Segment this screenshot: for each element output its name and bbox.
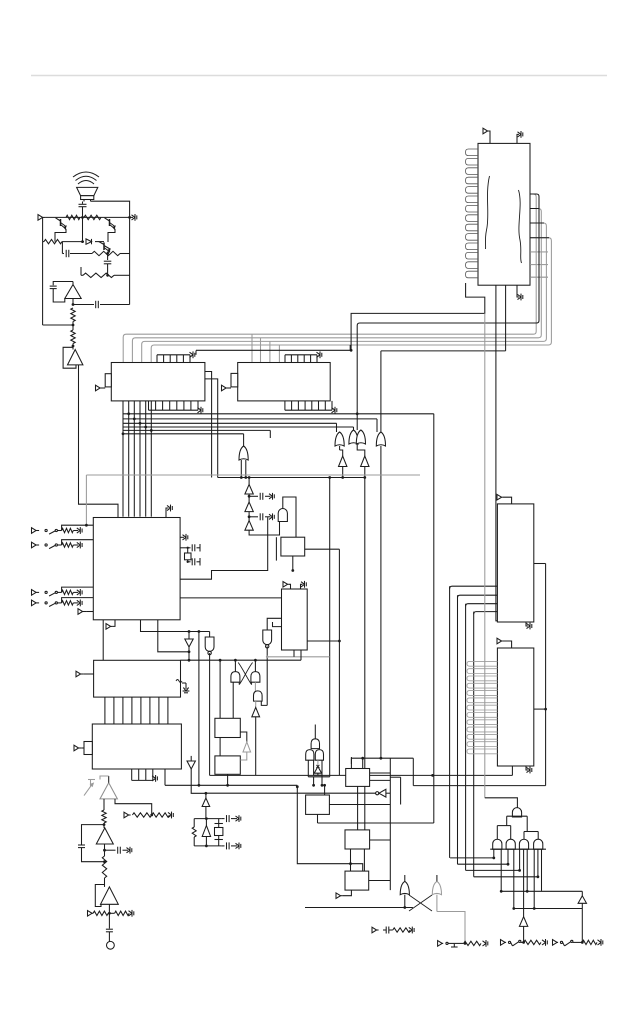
microphone MIC1 — [107, 932, 115, 949]
row R864 — [458, 863, 510, 866]
wire U1-U2 link 1 — [205, 372, 212, 478]
wire V276 — [275, 537, 277, 560]
capacitor C4 — [50, 286, 57, 289]
capacitor C7 — [249, 513, 274, 520]
wire speaker to cap C1 — [83, 202, 92, 204]
bus wire U1-U3 3 — [133, 401, 135, 517]
IC U6 body — [281, 537, 305, 556]
gray bus wire 2 — [132, 209, 541, 363]
capacitor C9 — [188, 558, 200, 566]
op-amp A5 feedback loop — [95, 885, 104, 907]
wire G5 out to U6 — [283, 497, 296, 537]
rect U11 — [306, 795, 330, 814]
AND gate G10 tall — [311, 725, 319, 749]
U2 input arrow — [222, 385, 232, 391]
wire V413 — [412, 758, 414, 785]
capacitor C6 — [249, 493, 274, 500]
wire T3-T4 — [248, 494, 251, 502]
input row B1 — [372, 927, 414, 934]
U1 left notch — [105, 374, 111, 387]
wire to row3 — [62, 242, 64, 254]
row R870 — [466, 869, 521, 872]
wire U12 right — [370, 839, 391, 841]
resistor R9 vertical — [102, 856, 106, 878]
osc box Y2 — [192, 817, 221, 847]
speaker SP1 — [77, 187, 98, 201]
wire V545 — [545, 564, 547, 786]
input row mic2 — [88, 910, 134, 917]
right rail down — [129, 217, 131, 304]
wire row3 — [70, 253, 130, 255]
bus wire U4-U5 3 — [122, 697, 124, 724]
wire U11 right — [329, 804, 390, 806]
AND gate G17 — [506, 839, 515, 849]
U3 bottom input arrow — [106, 620, 115, 629]
wire chain to G5 — [249, 522, 279, 536]
cap C14 — [221, 842, 241, 849]
AND gate G11a — [306, 750, 314, 761]
op-amp A2 — [68, 350, 83, 365]
tree bottom bar — [490, 848, 546, 850]
tree output vertical 1 — [493, 849, 495, 858]
cap C13 — [221, 815, 241, 822]
wire T4-T5 — [248, 512, 251, 521]
wire V198 — [198, 630, 201, 787]
capacitor C3 — [104, 261, 112, 264]
wire C1 down — [82, 207, 84, 218]
tree output vertical 5 — [519, 849, 521, 870]
input row B4 — [553, 939, 603, 946]
bus wire U4-U5 1 — [104, 697, 106, 724]
U8 bypass triangle T8 — [240, 732, 250, 760]
U4 squiggle — [176, 680, 189, 693]
wire H477 long — [218, 477, 366, 479]
U3 top-right ground — [166, 505, 172, 518]
wire V545 tap U15 — [534, 708, 547, 711]
photo resistor arrow — [84, 780, 95, 796]
branch row 2 — [123, 418, 377, 420]
wire U3 out2 — [180, 597, 281, 599]
gray long vertical — [484, 313, 486, 797]
rect U9 — [215, 756, 240, 774]
crossing wires G13-G14 — [409, 895, 432, 911]
inverter G12 — [207, 789, 391, 797]
inverter T6 — [185, 630, 193, 662]
wire A5 out — [108, 904, 111, 914]
bus wire U4-U5 7 — [158, 697, 160, 724]
wire U6 bottom — [291, 556, 294, 572]
wire U12 bottom — [349, 849, 364, 871]
wire U6 out right — [305, 548, 340, 550]
wire long V329 — [328, 476, 331, 777]
op-amp A1 — [65, 282, 81, 305]
wire U4 top-right row — [181, 659, 302, 662]
bus wire U4-U5 2 — [113, 697, 115, 724]
transistor Q3 — [99, 241, 111, 252]
bus wire U4-U5 6 — [149, 697, 151, 724]
wire G9 out hook — [261, 701, 267, 705]
wire U3 xtal — [180, 547, 189, 563]
wire W2 from J1 bottom — [496, 285, 509, 621]
crystal Y2 — [215, 819, 223, 846]
wire row2 — [43, 241, 104, 243]
wire speaker right to rail — [91, 201, 130, 217]
tree output vertical 3 — [507, 849, 509, 864]
connector J1 body — [478, 143, 530, 285]
OR gate G2 — [335, 432, 344, 456]
IC U2 body — [238, 363, 331, 401]
osc triangle T11 — [202, 819, 210, 846]
IC U15 body — [497, 648, 533, 766]
input row B3 — [501, 939, 548, 946]
U2 bottom pin comb — [285, 401, 337, 414]
IC U1 body — [111, 363, 205, 401]
U7 top ground — [301, 581, 307, 589]
tree top wire — [485, 798, 518, 808]
wire row4 — [81, 267, 130, 275]
buffer T4 — [245, 502, 253, 512]
wire mid vertical — [81, 217, 84, 243]
input row B2 gray — [438, 940, 488, 947]
bus wire U1-U3 2 — [128, 401, 130, 517]
op-amp A2 feedback loop — [63, 347, 76, 368]
cap C11 — [105, 847, 132, 854]
U5 bottom comb — [132, 769, 158, 782]
cap C12 — [106, 929, 113, 932]
wire U10 right — [370, 773, 391, 780]
left boundary wire — [42, 217, 44, 241]
U1 bottom pin comb — [149, 401, 203, 414]
branch row 4 — [123, 426, 354, 428]
cluster merge wires — [308, 760, 329, 786]
rect U12 — [345, 830, 370, 849]
latch gate G8b — [251, 660, 260, 682]
wire U9 bottom — [226, 774, 229, 786]
wire cluster left boundary — [296, 785, 363, 871]
wire A3 right leg — [115, 799, 152, 815]
tree output vertical 10 — [541, 849, 543, 891]
terminal right of rail — [130, 214, 137, 221]
wire T14 down — [581, 909, 584, 944]
wire U10 top — [351, 757, 413, 769]
buffer T2 — [357, 444, 369, 479]
J1 inner curve right — [519, 190, 522, 263]
wire Y350 horizontal — [196, 349, 506, 352]
buffer T10 — [202, 792, 210, 819]
resistor R2 — [84, 215, 101, 219]
AND gate G5 — [278, 509, 287, 522]
input row mic1 — [124, 812, 173, 819]
U1 input arrow — [96, 385, 106, 391]
wire U13 right — [369, 880, 391, 882]
gray wire G6 — [267, 656, 330, 658]
wire H775 long — [210, 774, 513, 777]
wire A3 out — [103, 799, 106, 826]
wire A4 out — [103, 844, 106, 856]
buffer T12 — [314, 760, 321, 773]
A3 apex wire — [100, 776, 109, 780]
wire G4 input — [380, 351, 382, 432]
wire W1 from J1 left-bottom — [351, 283, 485, 351]
buffer T1 — [339, 456, 347, 479]
U3 bottom wire 2 — [158, 620, 191, 653]
U14 right stub — [534, 563, 546, 565]
rect U10 — [346, 769, 370, 787]
bus wire U4-U5 4 — [131, 697, 133, 724]
junction dot rail — [81, 216, 131, 219]
row dots — [122, 412, 359, 435]
buffer T13 — [519, 917, 527, 944]
U14 input arrow — [497, 494, 512, 504]
connector right stubs group2 — [530, 252, 548, 277]
wire bottom loop — [43, 322, 75, 331]
wire A2 output long — [79, 365, 119, 518]
OR gate G3a — [349, 430, 358, 444]
wire U8-U9 — [219, 738, 221, 756]
left wire down — [42, 242, 44, 325]
wire Q1 collector down — [55, 226, 62, 242]
row R908 — [512, 907, 582, 910]
J1 input arrow — [483, 128, 490, 143]
wire G8a out — [232, 682, 234, 718]
wire A3-A4 — [103, 823, 105, 828]
resistor R6 vertical — [71, 308, 75, 322]
wire Y350 left end down — [195, 351, 197, 355]
gray bus drop to U2 4 — [278, 345, 280, 363]
latch gate G8a — [231, 660, 240, 682]
wire U3 out staircase — [180, 517, 268, 579]
resistor R1 — [66, 215, 80, 219]
transistor Q1 — [56, 218, 67, 229]
U13 input arrow — [336, 890, 351, 898]
J1 top ground — [517, 131, 523, 143]
OR gate G3b — [356, 430, 365, 444]
rect U8 — [215, 718, 240, 737]
tree output vertical 6 — [523, 849, 525, 917]
AND gate G11b — [315, 750, 323, 761]
AND gate G15 top — [512, 808, 521, 817]
U3 input row B — [32, 540, 94, 549]
gray bus wire 1 — [123, 194, 536, 363]
resistor R8 vertical — [102, 810, 106, 823]
A1 feedback wire — [53, 282, 73, 286]
row R891 — [500, 890, 582, 893]
capacitor C2 — [66, 250, 69, 257]
wire W1b pin to row — [357, 194, 539, 414]
row R858 — [450, 857, 495, 860]
op-amp A3 — [91, 776, 118, 799]
U10 top tick — [350, 757, 352, 764]
speaker SP1 sound waves — [73, 172, 99, 184]
buffer T3 — [245, 484, 253, 494]
U3 input arrow E — [78, 609, 93, 615]
wire to A2 — [72, 344, 75, 350]
OR gate G13 — [400, 875, 409, 909]
bus wire U1-U3 1 — [122, 401, 124, 517]
top horizontal rule — [31, 75, 607, 77]
NAND gate G7 — [205, 632, 214, 776]
NAND gate G6 — [263, 630, 272, 648]
U3 right stub ground — [180, 534, 188, 541]
wire V390 — [389, 758, 391, 890]
op-amp A5 — [101, 887, 119, 904]
A4 feedback 2 — [82, 848, 106, 864]
capacitor C5 — [96, 301, 99, 308]
IC U5 body — [92, 724, 181, 769]
wire U1-U2 link 2 — [205, 379, 218, 478]
U3 bottom wire 1 — [141, 620, 210, 632]
tree bar — [507, 815, 528, 817]
wire A1 out row — [72, 303, 130, 306]
diode D1 — [86, 239, 92, 244]
U5 input arrow — [74, 745, 84, 751]
AND gate G18 — [519, 839, 528, 849]
J1 right pin stubs — [530, 194, 549, 277]
wire G6 out — [266, 646, 269, 705]
wire H785 long — [165, 769, 297, 785]
row-end verticals — [244, 414, 434, 823]
wire U3-U4 — [102, 620, 104, 661]
wire H907 — [305, 907, 413, 909]
branch row 1 — [123, 413, 434, 415]
J1 left pin stubs — [466, 149, 478, 278]
resistor R3 — [44, 239, 62, 243]
U2 left notch — [231, 373, 238, 387]
IC U7 body — [282, 589, 308, 650]
wire U7 right — [307, 640, 341, 643]
AND gate G19 — [534, 839, 543, 849]
OR gate G1 — [239, 446, 248, 479]
branch row 6 — [123, 433, 244, 435]
capacitor C1 — [79, 204, 87, 206]
resistor R7 vertical — [71, 330, 75, 344]
OR gate G14 — [432, 875, 441, 912]
wire V545 bottom — [413, 785, 545, 787]
gray bus drop to U2 3 — [269, 341, 271, 362]
U3 row A junction — [85, 524, 88, 527]
tree branch right — [524, 816, 538, 839]
transistor Q2 — [105, 218, 116, 229]
branch row 5 — [123, 429, 270, 431]
buffer T5 — [245, 521, 253, 531]
wire G4 output long — [380, 446, 382, 758]
U3 input row D — [32, 598, 94, 607]
rect U13 — [345, 871, 369, 890]
IC U3 body — [93, 518, 180, 620]
wire V220 — [219, 659, 222, 719]
long verticals to bottom — [450, 586, 474, 877]
gray bus drop to U2 1 — [251, 334, 253, 362]
wire W5 from J1 bottom center — [505, 285, 507, 351]
wire V400 jog — [390, 777, 400, 804]
gray wire H475 — [86, 475, 420, 525]
tree output vertical 9 — [537, 849, 539, 877]
OR gate G4 — [376, 432, 385, 446]
tree output vertical 4 — [513, 849, 515, 908]
U15 bottom ground — [526, 766, 532, 773]
input arrow top-left amp — [38, 215, 46, 221]
wire V380 end — [380, 757, 383, 760]
wire Q2 emitter — [108, 229, 115, 242]
op-amp A4 — [96, 828, 113, 844]
bus wire U4-U5 8 — [167, 697, 169, 724]
capacitor C8 — [188, 544, 200, 552]
AND gate G16 — [493, 839, 502, 849]
resistor R5 — [83, 273, 114, 277]
tree branch left — [497, 816, 510, 839]
bus wire U1-U3 4 — [139, 401, 141, 517]
U14 bottom ground — [526, 622, 532, 629]
buffer T14 — [578, 891, 586, 908]
resistor R4 — [92, 251, 120, 255]
A4 feedback cap C10 — [78, 825, 105, 848]
U3 input row C — [32, 587, 94, 596]
wire U11 bottom — [318, 814, 434, 823]
tree output vertical 8 — [533, 849, 535, 908]
AND gate G9 — [254, 682, 263, 701]
U4 input arrow — [76, 671, 94, 677]
wire to mic — [108, 913, 110, 928]
U1 top pin comb — [157, 351, 195, 362]
bus wire U4-U5 5 — [140, 697, 142, 724]
U2 top pin comb — [285, 351, 322, 362]
wire U10 bottom — [357, 786, 359, 830]
IC U4 body — [94, 660, 181, 697]
U11 top tick — [323, 784, 326, 795]
bus wire U1-U3 5 — [145, 401, 147, 517]
gray bus wire 4 — [151, 238, 551, 363]
gray bus drop to U2 2 — [260, 338, 262, 363]
gray bus wire 3 — [142, 223, 547, 363]
U3 input row A — [32, 525, 94, 534]
J1 bottom ground — [517, 285, 523, 300]
row R877 — [474, 875, 540, 878]
IC U14 body — [497, 504, 533, 622]
A1 feedback wire 2 — [53, 289, 65, 302]
gray wire to row B2 — [437, 912, 465, 944]
U15 left pin stubs — [467, 661, 497, 753]
wire Q3 emitter down — [106, 252, 110, 260]
U14 left pin wires — [450, 586, 498, 614]
wire C3 down — [106, 264, 109, 277]
crystal Y1 — [185, 552, 192, 562]
wire chain top — [248, 476, 251, 484]
inverter T9 — [187, 756, 207, 793]
wire V339 — [338, 549, 340, 775]
U7 input arrow — [283, 582, 291, 590]
wire U15 bottom left — [511, 766, 513, 775]
branch row 3 — [123, 422, 337, 424]
wire A4-A5 — [104, 878, 106, 887]
J1 inner curve left — [485, 176, 489, 249]
bus wire U1-U3 6 — [150, 401, 152, 517]
block right bars — [541, 890, 543, 892]
wire V350 from gray bus — [349, 345, 351, 351]
crossing wires G8 — [238, 663, 252, 685]
wire U7 bottom — [294, 650, 301, 660]
tree output vertical 2 — [500, 849, 502, 891]
wire Q1 emitter — [55, 229, 66, 242]
U5 left notch — [84, 742, 92, 755]
U7 left wires — [267, 618, 281, 630]
wire long V364 — [364, 478, 366, 830]
node top rail — [46, 216, 130, 218]
tree output vertical 7 — [526, 849, 528, 891]
U15 input arrow — [497, 638, 512, 648]
buffer T7 — [252, 701, 260, 775]
wire G3 inputs — [356, 414, 358, 430]
